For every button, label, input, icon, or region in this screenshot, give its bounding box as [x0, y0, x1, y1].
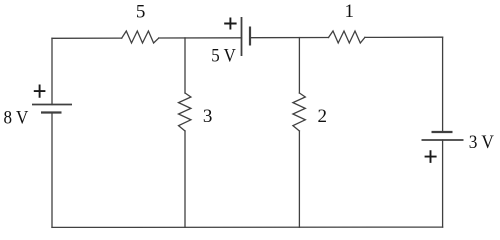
battery B3 3V short plate (negative): [432, 131, 453, 133]
battery B1 8V long plate (positive): [32, 104, 72, 106]
battery B3 3V long plate (positive): [422, 139, 464, 141]
wire node A branch: top wire down to resistor 3: [184, 38, 186, 93]
wire from resistor 2 to bottom rail: [298, 131, 300, 227]
plus sign of battery 8V: [34, 85, 46, 98]
svg-text:3: 3: [203, 106, 213, 127]
svg-text:2: 2: [318, 106, 328, 127]
wire from resistor 5 to battery 5V left plate: [159, 37, 242, 39]
svg-text:5 V: 5 V: [211, 46, 236, 67]
resistor 2 (vertical zigzag): [293, 93, 305, 131]
wire left side bottom: battery 8V short plate down to bottom-left corner: [51, 113, 53, 228]
plus sign of battery 3V: [425, 150, 437, 163]
plus sign of battery 5V: [224, 18, 236, 30]
resistor 3 (vertical zigzag): [179, 93, 191, 131]
resistor 1 (zigzag): [329, 31, 365, 43]
wire right side top: corner down to battery 3V short plate: [442, 37, 444, 132]
battery B1 8V short plate (negative): [41, 111, 62, 113]
wire from battery 5V right plate to resistor 1: [250, 37, 329, 39]
battery B2 5V long plate (positive): [241, 17, 243, 56]
svg-text:8 V: 8 V: [4, 107, 29, 128]
wire top-left from left corner to resistor 5: [52, 37, 122, 39]
svg-text:3 V: 3 V: [469, 132, 494, 153]
battery B2 5V short plate (negative): [249, 27, 251, 46]
wire right side bottom: battery 3V long plate down to bottom-right corner: [442, 140, 444, 227]
svg-text:1: 1: [345, 1, 355, 22]
wire bottom rail: [52, 226, 443, 228]
wire from resistor 3 to bottom rail: [184, 131, 186, 227]
svg-text:5: 5: [136, 2, 146, 23]
wire from resistor 1 to top-right corner: [365, 36, 443, 38]
wire left side top: corner down to battery 8V long plate: [51, 38, 53, 104]
resistor 5 (zigzag): [122, 31, 159, 43]
wire node B branch: top wire down to resistor 2: [298, 38, 300, 93]
